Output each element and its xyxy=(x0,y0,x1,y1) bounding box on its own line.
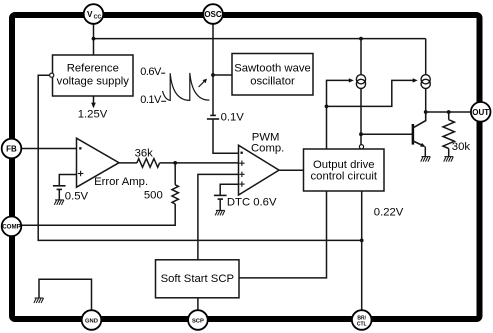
wire GND pin to internal ground xyxy=(39,279,92,310)
wire soft-start line to PWM plus input 2 xyxy=(198,174,239,259)
resistor 30k xyxy=(443,120,454,149)
wire OSC vertical from pin to battery xyxy=(212,24,214,115)
pin FB xyxy=(2,139,22,159)
node feedback junction (36k / 500 / PWM input) xyxy=(173,161,177,165)
svg-text:control circuit: control circuit xyxy=(311,171,378,183)
wire DTC battery to ground xyxy=(219,199,221,210)
node control line branch junction xyxy=(325,105,329,109)
wire 1.25V output stub below reference block xyxy=(93,96,95,104)
op-amp PWM comparator xyxy=(239,145,280,195)
block Reference voltage supply xyxy=(53,55,134,96)
svg-text:COMP: COMP xyxy=(2,224,21,231)
svg-text:Soft Start SCP: Soft Start SCP xyxy=(161,273,234,285)
arrow waveform-to-OSC-node arrow xyxy=(199,81,205,87)
pin OSC xyxy=(203,4,223,24)
wire rail down to current source I2 xyxy=(425,39,427,75)
wire soft start block to SCP pin xyxy=(197,298,199,310)
wire current source I2 down to transistor collector node xyxy=(425,89,427,113)
svg-text:0.1V: 0.1V xyxy=(140,94,162,106)
pin COMP xyxy=(2,217,22,237)
wire collector node to OUT pin xyxy=(426,111,471,113)
wire PWM output to output drive control circuit xyxy=(279,169,304,171)
resistor 500 xyxy=(172,185,178,204)
waveform sawtooth oscillator waveform xyxy=(163,73,210,101)
svg-text:1.25V: 1.25V xyxy=(78,108,108,120)
svg-text:OUT: OUT xyxy=(472,108,489,117)
svg-text:CTL: CTL xyxy=(357,321,367,327)
block Soft Start SCP xyxy=(156,260,240,298)
wire OUT node down to 30k xyxy=(448,112,450,120)
wire rail down to current source I1 xyxy=(360,39,362,75)
wire 30k to ground xyxy=(448,149,450,157)
ground below 30k resistor xyxy=(444,157,454,162)
node 1.25V line meets BR/CTL line junction xyxy=(360,239,364,243)
tick 0.6V level mark xyxy=(161,72,165,74)
label PWM comparator plus input 3 xyxy=(239,181,244,186)
pin BR/CTL xyxy=(352,310,372,330)
label PWM comparator plus input 1 xyxy=(239,161,244,166)
node OSC branch junction xyxy=(211,73,215,77)
svg-text:36k: 36k xyxy=(135,148,154,160)
svg-text:500: 500 xyxy=(144,190,163,202)
wire DTC battery to PWM plus input 3 xyxy=(220,184,238,195)
wire 500 resistor down and left to COMP pin xyxy=(21,204,175,225)
svg-text:Comp.: Comp. xyxy=(251,142,284,154)
current source I2 xyxy=(421,75,430,89)
ground below 0.5V battery xyxy=(54,200,64,205)
block Output drive control circuit xyxy=(304,149,385,191)
battery 0.5V on error amp plus input xyxy=(53,186,66,190)
svg-text:Sawtooth wave: Sawtooth wave xyxy=(234,62,311,74)
ground below transistor emitter xyxy=(421,157,431,162)
svg-text:Error Amp.: Error Amp. xyxy=(94,176,148,188)
node open-circle terminal on reference block left edge xyxy=(50,73,54,77)
block Sawtooth wave oscillator xyxy=(232,54,313,96)
pin SCP xyxy=(188,310,208,330)
op-amp error amplifier xyxy=(77,138,120,187)
svg-text:V: V xyxy=(87,10,93,19)
arrow control arrowhead at current source I2 xyxy=(413,78,418,82)
svg-text:SCP: SCP xyxy=(192,318,204,324)
wire error amp plus input to 0.5V battery xyxy=(59,175,76,186)
wire current source I1 down to output drive block xyxy=(360,89,362,145)
wire error amp output to 36k resistor xyxy=(119,162,137,164)
svg-text:GND: GND xyxy=(85,318,98,324)
battery DTC 0.6V xyxy=(214,195,227,199)
pin GND xyxy=(82,310,102,330)
svg-text:DTC 0.6V: DTC 0.6V xyxy=(227,197,277,209)
svg-text:0.22V: 0.22V xyxy=(374,206,404,218)
wire control line to current source I1 (up from block top) xyxy=(327,80,350,149)
node base drive junction xyxy=(359,132,363,136)
node collector / OUT junction xyxy=(424,110,428,114)
label error amp minus input dot xyxy=(79,147,81,149)
svg-text:Output drive: Output drive xyxy=(313,159,375,171)
wire FB pin to error amp inverting input xyxy=(21,148,76,150)
svg-text:30k: 30k xyxy=(452,141,471,153)
ground internal ground symbol bottom left xyxy=(34,298,44,303)
wire 36k to PWM comparator first plus input xyxy=(160,162,239,164)
wire output drive block bottom to BR/CTL pin (0.22V line) xyxy=(361,191,363,310)
ground below DTC battery xyxy=(215,210,225,215)
wire control line branch to current source I2 xyxy=(327,80,414,106)
wire battery to PWM comparator minus input xyxy=(213,119,239,153)
node OUT line to 30k junction xyxy=(447,110,451,114)
node open-circle terminal on output drive block top xyxy=(359,145,363,149)
arrow control arrowhead at current source I1 xyxy=(349,78,354,82)
pin OUT xyxy=(471,102,491,122)
battery 0.1V offset on OSC line xyxy=(207,115,219,119)
svg-text:CC: CC xyxy=(94,14,102,20)
wire 0.5V battery to ground xyxy=(58,189,60,200)
current source I1 xyxy=(356,75,365,89)
label PWM comparator plus input 2 xyxy=(239,172,244,177)
arrow 1.25V output arrowhead xyxy=(91,103,96,109)
wire 1.25V reference: left from block, down left side, across bottom to BR/CTL line xyxy=(38,75,362,240)
wire junction down to 500 resistor xyxy=(174,163,176,185)
node rail to current source I1 junction xyxy=(359,37,363,41)
svg-text:OSC: OSC xyxy=(204,10,222,19)
svg-text:0.5V: 0.5V xyxy=(65,190,89,202)
wire junction to transistor base xyxy=(361,133,412,135)
wire soft start block to output drive block bottom xyxy=(239,191,327,278)
node Vcc rail junction xyxy=(92,37,96,41)
label PWM comparator minus input dot xyxy=(241,152,243,154)
svg-text:oscillator: oscillator xyxy=(250,75,295,87)
tick 0.1V level mark xyxy=(161,100,166,102)
wire OSC junction to sawtooth oscillator block xyxy=(213,74,232,76)
svg-text:0.1V: 0.1V xyxy=(221,112,245,124)
wire Vcc vertical from pin to reference block xyxy=(93,24,95,55)
label error amp plus input xyxy=(78,171,83,176)
resistor 36k xyxy=(137,159,160,168)
svg-text:0.6V: 0.6V xyxy=(140,66,162,78)
svg-text:Reference: Reference xyxy=(67,63,119,75)
wire Vcc top rail xyxy=(94,38,426,40)
svg-text:FB: FB xyxy=(6,145,17,154)
svg-text:voltage supply: voltage supply xyxy=(57,76,130,88)
transistor Q1 output NPN xyxy=(413,112,426,157)
pin Vcc xyxy=(84,4,104,24)
